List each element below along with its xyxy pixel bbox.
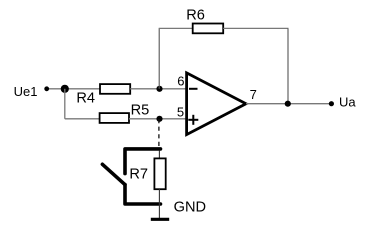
node A (input junction) xyxy=(61,85,69,93)
label R7 xyxy=(129,167,148,183)
ground xyxy=(151,218,169,221)
terminal Ue1 xyxy=(44,86,49,91)
resistor R7 xyxy=(154,158,165,189)
label Ua xyxy=(339,95,356,110)
pin 7 xyxy=(250,87,257,102)
label Ue1 xyxy=(14,84,38,99)
pin 6 xyxy=(177,74,184,89)
resistor R6 xyxy=(193,24,224,34)
svg-text:5: 5 xyxy=(177,105,184,120)
wire xyxy=(64,89,66,119)
wire (dashed to R7) xyxy=(158,119,160,146)
pin 5 xyxy=(177,105,184,120)
wire xyxy=(129,118,187,120)
switch S1 (across R7) xyxy=(102,149,160,204)
terminal Ua xyxy=(329,101,334,106)
wire (R7 bottom lead) xyxy=(158,189,160,219)
wire (feedback right vertical) xyxy=(287,28,289,103)
svg-text:R4: R4 xyxy=(76,90,95,106)
wire (R7 top lead) xyxy=(158,151,160,159)
svg-text:R5: R5 xyxy=(131,102,150,118)
svg-text:Ua: Ua xyxy=(339,95,356,110)
wire (output) xyxy=(246,103,331,105)
wire xyxy=(47,88,100,90)
node C (non-inverting input) xyxy=(156,116,162,122)
svg-text:7: 7 xyxy=(250,87,257,102)
svg-text:6: 6 xyxy=(177,74,184,89)
node B (inverting input / feedback) xyxy=(156,86,162,92)
svg-text:R7: R7 xyxy=(129,167,148,183)
wire (feedback top left) xyxy=(159,27,193,29)
resistor R5 xyxy=(100,113,129,123)
svg-text:Ue1: Ue1 xyxy=(14,84,38,99)
op-amp U1 xyxy=(187,73,246,135)
label R6 xyxy=(186,7,205,23)
resistor R4 xyxy=(100,84,130,94)
node D (output junction) xyxy=(285,101,291,107)
wire xyxy=(130,88,186,90)
svg-text:R6: R6 xyxy=(186,7,205,23)
wire (feedback top right) xyxy=(223,27,288,29)
wire (feedback left vertical) xyxy=(158,28,160,88)
label R5 xyxy=(131,102,150,118)
label R4 xyxy=(76,90,95,106)
svg-text:GND: GND xyxy=(174,199,206,215)
wire xyxy=(65,118,100,120)
label GND xyxy=(174,199,206,215)
